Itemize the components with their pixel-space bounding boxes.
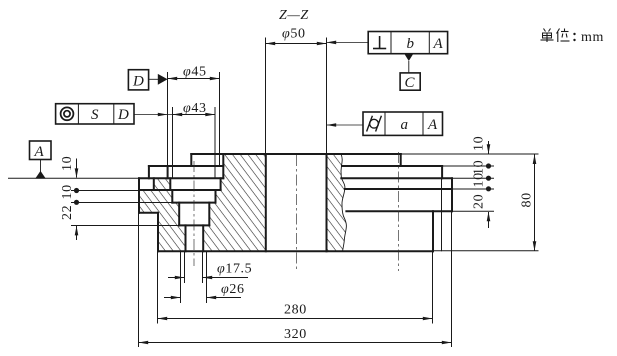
dimension phi50 top <box>266 27 327 46</box>
svg-text:80: 80 <box>520 192 535 207</box>
L3 bore right wall <box>215 190 217 203</box>
phi26 bore right wall <box>208 203 210 226</box>
svg-text:A: A <box>427 117 438 133</box>
phi17.5 ext lines down <box>184 251 186 283</box>
dimension phi45 <box>168 65 220 81</box>
phi45 bore left wall <box>167 166 169 178</box>
svg-text:C: C <box>405 75 416 91</box>
svg-text:A: A <box>34 144 45 160</box>
F5 right line <box>346 210 452 212</box>
centerline of part axis <box>296 155 298 270</box>
dimension 80 right <box>520 154 537 251</box>
280 ext lines <box>157 251 159 323</box>
svg-text:mm: mm <box>581 30 604 45</box>
ext y=190 left <box>71 190 139 192</box>
F2 right face <box>342 165 442 167</box>
dimension phi43 <box>173 101 216 116</box>
phi45 right ext <box>219 72 221 166</box>
wire: thin interior line right side x=441.5 <box>441 178 443 251</box>
phi50 left ext <box>265 38 267 154</box>
hatch left lower band <box>139 190 186 251</box>
svg-text:280: 280 <box>284 303 307 318</box>
svg-text:10: 10 <box>60 184 75 199</box>
centerline right bolt hole <box>398 152 400 271</box>
F4 right line <box>345 188 452 190</box>
F3/counterbore line y=178.3 <box>139 177 223 179</box>
svg-text:a: a <box>401 117 409 133</box>
cyl1 left edge <box>190 154 192 166</box>
centerline left bolt hole <box>193 161 195 266</box>
phi26 ext lines down <box>180 251 182 303</box>
svg-text:Z—Z: Z—Z <box>279 8 309 23</box>
section label Z-Z <box>279 8 309 23</box>
F5 left face <box>139 212 158 214</box>
datum C assembly under frame <box>400 54 420 91</box>
feature control frame: cylindricity a A <box>327 112 443 135</box>
phi26 bore bottom y=225.4 <box>179 224 209 226</box>
dimension phi26 <box>164 282 245 299</box>
units label: hand-drawn CJK wei (position) <box>557 29 570 43</box>
bottom cyl left edge <box>157 213 159 252</box>
left dimension column 10/10/22 <box>60 156 79 240</box>
rim box right wall <box>153 178 155 190</box>
y=190 line (rim box bottom + phi43 bottom) <box>139 189 221 191</box>
ext y=202.6 left <box>71 202 172 204</box>
ext y=225.4 left <box>71 225 179 227</box>
phi45 left ext <box>167 72 169 166</box>
wire: part outline thick edges <box>139 154 452 251</box>
svg-text:φ45: φ45 <box>183 65 207 80</box>
dimension phi17.5 <box>168 262 252 280</box>
extension lines thin <box>8 38 539 348</box>
svg-text:10: 10 <box>472 136 487 151</box>
units label: mm <box>581 30 604 45</box>
phi17.5 bore left wall <box>185 225 187 251</box>
L3 bore left wall <box>171 190 173 203</box>
phi17.5 bore right wall <box>202 225 204 251</box>
svg-text:20: 20 <box>472 194 487 209</box>
F3 right line <box>341 177 452 179</box>
svg-text:D: D <box>132 74 144 90</box>
flange right edge <box>451 178 453 211</box>
svg-text:φ50: φ50 <box>282 27 306 42</box>
datum A: box, leader, triangle <box>30 141 52 179</box>
svg-text:b: b <box>407 36 415 52</box>
svg-text:φ26: φ26 <box>221 282 245 297</box>
units label: hand-drawn CJK dan (unit) <box>541 29 554 43</box>
dimension 320 <box>139 327 452 344</box>
svg-text:S: S <box>91 107 99 123</box>
svg-text:10: 10 <box>472 172 487 187</box>
wire: wavy break line <box>341 154 346 251</box>
svg-text:φ43: φ43 <box>183 101 207 116</box>
cyl2 left edge vertical <box>148 166 150 178</box>
datum A line y=178.3 <box>8 177 139 179</box>
hatch left sliver between rim box and phi43 wall <box>154 178 171 190</box>
cyl1 right edge <box>400 154 402 166</box>
feature control frame: concentricity S D <box>56 104 173 124</box>
right dimension column 10/10/10/20 <box>472 136 492 228</box>
phi43 bore left wall <box>169 178 171 190</box>
feature control frame: perpendicularity b A <box>327 32 448 54</box>
svg-text:10: 10 <box>60 156 75 171</box>
phi50 hole right wall <box>326 154 328 251</box>
dimension 280 <box>158 303 433 321</box>
L3 bore bottom y=202.6 <box>172 202 215 204</box>
svg-text:320: 320 <box>284 327 307 342</box>
hatch right sliver with wavy break-line boundary <box>327 154 347 251</box>
phi43 left ext <box>172 107 174 178</box>
phi50 hole left wall <box>265 154 267 251</box>
phi50 right ext <box>326 38 328 154</box>
bottom face <box>158 250 433 252</box>
320 ext lines <box>138 213 140 347</box>
flange left edge <box>138 178 140 213</box>
F2 left face + bore mouth line <box>149 165 223 167</box>
svg-text:φ17.5: φ17.5 <box>217 262 252 277</box>
phi43 bore right wall <box>220 178 222 190</box>
svg-text:22: 22 <box>60 205 75 220</box>
phi43 right ext <box>214 107 216 178</box>
units label: fullwidth colon <box>573 33 575 41</box>
right dims ext lines <box>401 153 539 155</box>
svg-text:A: A <box>433 36 444 52</box>
phi45 bore right wall <box>222 154 224 178</box>
top face F1 <box>191 153 400 155</box>
phi26 bore left wall <box>178 203 180 226</box>
cyl2 right edge <box>441 166 443 178</box>
hatch left main block (section between stepped hole and center bore) <box>203 154 266 251</box>
svg-text:D: D <box>117 107 129 123</box>
datum D: box, leader, filled triangle pointing right <box>128 70 167 90</box>
bottom cyl right edge <box>432 211 434 251</box>
